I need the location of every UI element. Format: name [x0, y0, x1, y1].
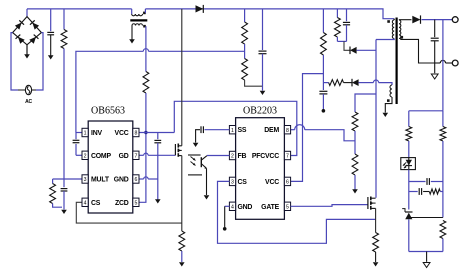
wire feedback top [409, 110, 443, 112]
wire divider middle [244, 44, 246, 59]
wire PFC MOSFET drain to switch node [181, 9, 183, 146]
resistor divider sense lower [440, 221, 446, 239]
resistor output divider lower [242, 59, 248, 81]
wire flyback MOSFET source to sense [375, 208, 377, 232]
bridge diode lower-right [29, 35, 38, 44]
optocoupler LED box [401, 158, 416, 170]
wire CS pin path to flyback sense [218, 181, 376, 243]
capacitor INV-COMP compensation [73, 139, 80, 141]
wire bulk capacitor to ground [262, 54, 264, 91]
ground arrow below X capacitor [48, 55, 54, 59]
wire output cap top lead [434, 20, 436, 37]
resistor divider sense upper [440, 127, 446, 142]
wire OB2203 VCC riser [291, 74, 324, 182]
capacitor soft start [200, 126, 202, 133]
svg-text:DEM: DEM [264, 127, 279, 134]
wire INV pin stub [76, 132, 82, 134]
optocoupler phototransistor [188, 154, 201, 156]
wire divider middle segment [442, 141, 444, 218]
svg-text:MULT: MULT [91, 177, 110, 184]
wire COMP pin stub [76, 154, 82, 156]
svg-text:2: 2 [231, 154, 234, 160]
AC source circle [25, 85, 31, 94]
wire output ground drop [434, 63, 436, 73]
wire VCC pin8 line [139, 132, 174, 134]
wire flyback primary bottom [376, 39, 394, 40]
polarity square flyback secondary [401, 36, 404, 39]
resistor PFC current sense [179, 231, 185, 251]
flyback aux winding [390, 85, 392, 97]
wire VCC node to charge resistor [323, 82, 328, 84]
resistor startup [321, 33, 327, 56]
ground arrow flyback sense [373, 262, 379, 266]
wire flyback sense to ground [375, 252, 377, 262]
diode snubber clamp [350, 47, 357, 54]
diode boost rectifier [196, 5, 204, 12]
ground arrow opto emitter [204, 195, 210, 199]
wire sense resistor to ground [181, 251, 183, 262]
svg-text:2: 2 [84, 154, 87, 160]
wire CS pin to sense node [76, 202, 182, 223]
svg-text:GND: GND [114, 177, 129, 184]
resistor multiplier divider lower [52, 179, 54, 184]
wire ZCD feed to ZCD pin [139, 93, 146, 202]
wire RC row left [409, 191, 418, 193]
svg-text:SS: SS [238, 127, 247, 134]
op-amp IC U1 OB6563 body [88, 121, 133, 213]
svg-text:8: 8 [286, 128, 289, 134]
resistor output divider upper [242, 22, 248, 44]
ground arrow below bridge [26, 45, 28, 58]
bridge rectifier diamond [13, 17, 42, 45]
wire feedback bottom [409, 251, 443, 253]
wire AC loop right [36, 33, 43, 90]
svg-text:ZCD: ZCD [115, 200, 129, 207]
ground arrow PFC aux left [129, 39, 135, 43]
wire rail to snubber resistor [336, 9, 338, 18]
wire output negative [435, 62, 441, 64]
svg-text:4: 4 [84, 201, 87, 207]
wire divider lower to bottom [442, 239, 444, 252]
wire output cap bottom lead [434, 41, 436, 63]
wire VCC storage cap lower [322, 94, 324, 110]
wire multiplier divider to MULT node [63, 49, 65, 180]
wire top rail right of PFC inductor to flyback primary [145, 9, 394, 19]
ground open arrow feedback [423, 263, 430, 268]
wire snubber cap bottom [346, 25, 348, 42]
polarity square PFC aux [143, 25, 146, 28]
wire DEM top to aux [355, 94, 376, 112]
svg-text:INV: INV [91, 130, 102, 137]
svg-text:3: 3 [84, 177, 87, 183]
wire PFC aux right lead [145, 26, 147, 71]
wire snubber join [337, 40, 346, 42]
wire output sense drop [442, 20, 444, 111]
svg-text:GD: GD [119, 153, 129, 160]
wire snubber diode to switch node [357, 49, 376, 51]
wire DEM with hop [291, 129, 295, 131]
ground arrow MULT network [61, 210, 67, 214]
PFC inductor aux winding [132, 24, 143, 26]
wire startup resistor to VCC node [322, 55, 324, 90]
svg-text:OB2203: OB2203 [243, 105, 277, 116]
IC U2 pins and labels [229, 126, 235, 134]
wire GND pin to ground [225, 205, 230, 207]
svg-text:1: 1 [84, 131, 87, 137]
svg-text:4: 4 [231, 205, 234, 211]
capacitor RC compensation [418, 188, 420, 195]
resistor VCC charge [329, 80, 344, 86]
wire rail to multiplier divider resistor [63, 9, 65, 30]
hop INV rail over aux line [143, 49, 148, 52]
svg-text:5: 5 [286, 205, 289, 211]
wire output positive [422, 19, 453, 21]
bridge diode lower-left [16, 35, 25, 44]
resistor DEM divider upper [352, 112, 358, 131]
wire MULT filter branch [63, 179, 65, 187]
svg-text:OB6563: OB6563 [91, 106, 125, 117]
wire rail to startup resistor [322, 9, 324, 33]
transistor flyback MOSFET [367, 197, 369, 209]
wire X-capacitor top lead [50, 9, 52, 31]
svg-text:CS: CS [238, 179, 248, 186]
wire GATE to flyback MOSFET [291, 205, 368, 207]
svg-text:6: 6 [134, 177, 137, 183]
svg-text:COMP: COMP [91, 153, 111, 160]
wire LED series to box [408, 141, 410, 158]
wire divider sense upper [442, 111, 444, 127]
wire RC row right [440, 191, 443, 193]
PFC inductor core [130, 19, 147, 21]
flyback secondary winding [398, 19, 400, 21]
wire DEM divider to ground [354, 175, 356, 190]
wire SS capacitor to ground [196, 130, 200, 143]
PFC inductor primary winding [132, 14, 143, 16]
bridge diode upper-right [30, 20, 39, 29]
wire bridge top to rail [26, 9, 28, 17]
capacitor snubber [343, 21, 350, 23]
X capacitor across line [47, 31, 54, 33]
svg-text:GATE: GATE [261, 204, 279, 211]
wire feedback ground drop [426, 252, 428, 262]
wire secondary bottom path [401, 39, 435, 64]
capacitor compensation [426, 178, 428, 185]
wire VCC bypass to ground [157, 143, 159, 200]
wire flyback aux bottom to ground [385, 97, 392, 113]
ground arrow DEM divider [352, 189, 358, 193]
svg-text:FB: FB [238, 153, 247, 160]
terminal dot OB2203 GND [223, 227, 227, 231]
flyback primary winding [393, 19, 395, 20]
wire rail to output divider [244, 9, 246, 22]
svg-text:VCC: VCC [265, 179, 279, 186]
capacitor VCC bypass [154, 139, 161, 141]
svg-text:5: 5 [134, 201, 137, 207]
wire divider bottom to ground node [245, 80, 263, 86]
wire PFC MOSFET source to sense resistor [181, 156, 183, 231]
resistor snubber [335, 18, 341, 38]
terminal dot VCC storage [322, 109, 326, 113]
wire RC middle [423, 191, 429, 193]
capacitor MULT filter [61, 188, 68, 190]
svg-text:6: 6 [286, 180, 289, 186]
diode VCC charge [352, 79, 359, 86]
polarity square flyback aux [387, 99, 390, 102]
svg-text:7: 7 [286, 154, 289, 160]
ground arrow bulk capacitor [260, 91, 266, 95]
svg-text:3: 3 [231, 180, 234, 186]
wire opto emitter to ground [206, 168, 208, 195]
capacitor VCC storage [319, 90, 327, 92]
IC U1 pins and labels [82, 128, 88, 136]
wire GD to PFC MOSFET gate [139, 154, 144, 156]
wire TL431 ref line [411, 217, 443, 219]
svg-text:GND: GND [238, 204, 253, 211]
wire snubber resistor bottom [336, 37, 338, 41]
wire top rail from bridge to boost section [27, 8, 132, 10]
capacitor bulk [259, 50, 267, 52]
wire diode to aux winding with hop [359, 82, 374, 84]
svg-text:7: 7 [134, 154, 137, 160]
wire INV sense rail right part [148, 50, 244, 52]
wire PFC aux left to ground [131, 26, 133, 40]
ground arrow VCC bypass [155, 199, 161, 203]
terminal output negative [452, 60, 458, 66]
resistor DEM divider lower [352, 154, 358, 175]
ground arrow PFC sense [179, 262, 185, 266]
svg-text:AC: AC [25, 99, 32, 105]
wire feedback left upper [408, 111, 410, 127]
resistor RC compensation [429, 189, 440, 194]
ground arrow SS [193, 143, 199, 147]
shunt regulator TL431 [405, 211, 413, 213]
junction dot VCC-aux [144, 131, 147, 134]
svg-text:1: 1 [231, 128, 234, 134]
ground arrow flyback aux [383, 113, 389, 117]
wire MULT filter to ground [63, 191, 65, 210]
wire LED box to TL431 [408, 170, 410, 210]
capacitor output filter [431, 37, 439, 39]
ground open arrow output [431, 74, 438, 79]
wire rail to snubber capacitor [346, 9, 348, 21]
wire rail drop into PFC inductor [131, 9, 133, 14]
wire VCC riser to PFCVCC line [174, 101, 296, 155]
wire secondary top to diode [399, 19, 412, 21]
wire DEM divider middle [354, 131, 356, 154]
svg-text:VCC: VCC [115, 130, 129, 137]
polarity square PFC primary [143, 12, 146, 15]
flyback transformer core [396, 18, 398, 105]
svg-text:8: 8 [134, 131, 137, 137]
wire flyback switch node [375, 40, 377, 198]
diode output rectifier [412, 16, 420, 24]
svg-text:PFCVCC: PFCVCC [252, 153, 279, 160]
wire SS pin to capacitor [205, 129, 230, 131]
wire FB pin to optocoupler [207, 155, 230, 157]
wire charge resistor to diode [344, 82, 353, 84]
transistor PFC MOSFET [174, 144, 176, 155]
terminal output positive [452, 17, 458, 23]
svg-text:CS: CS [91, 200, 101, 207]
wire comp capacitor row [409, 181, 426, 183]
wire MULT pin to divider [53, 178, 82, 180]
wire INV sense rail [76, 51, 143, 132]
resistor multiplier divider upper [61, 30, 67, 49]
resistor flyback current sense [373, 233, 379, 253]
wire GND pin6 to ground line [139, 178, 144, 180]
bridge diode upper-left [15, 20, 24, 29]
wire AC loop left [11, 33, 18, 90]
resistor feedback LED series [406, 127, 412, 142]
resistor ZCD feed [143, 72, 149, 94]
wire TL431 anode to bottom [408, 219, 410, 251]
wire PFC inductor primary to rail [144, 9, 146, 13]
polarity square flyback primary [387, 20, 390, 23]
controller IC U2 OB2203 body [236, 118, 285, 220]
wire VCC bypass branch [157, 133, 159, 140]
wire rail to bulk capacitor [262, 9, 264, 50]
